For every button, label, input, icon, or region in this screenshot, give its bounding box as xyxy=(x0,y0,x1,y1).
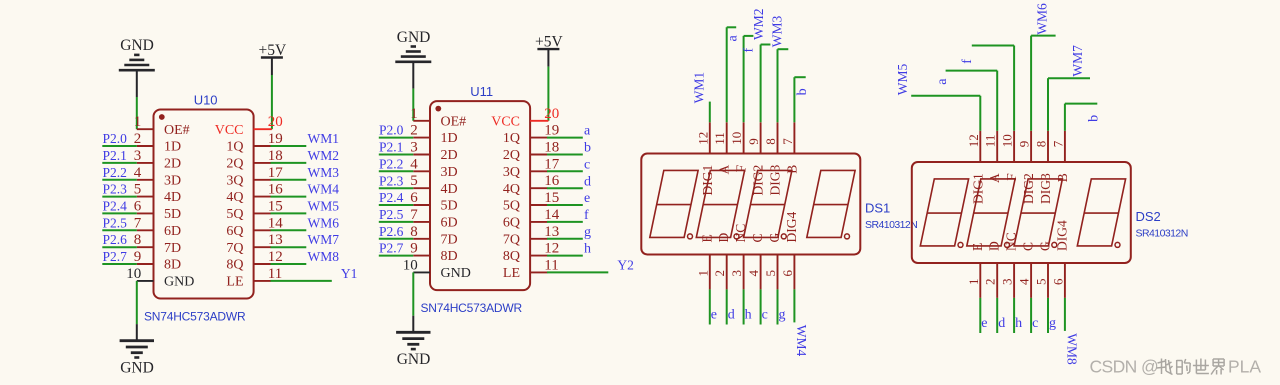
svg-text:6: 6 xyxy=(410,190,418,206)
svg-text:3: 3 xyxy=(134,148,142,164)
svg-text:2: 2 xyxy=(712,270,727,277)
svg-text:G: G xyxy=(767,233,782,243)
net label WM3 xyxy=(769,15,784,47)
svg-text:5: 5 xyxy=(410,173,418,189)
svg-text:G: G xyxy=(1038,241,1053,251)
svg-text:SN74HC573ADWR: SN74HC573ADWR xyxy=(144,310,246,324)
svg-text:WM6: WM6 xyxy=(308,215,340,230)
svg-text:f: f xyxy=(960,59,975,64)
net label e xyxy=(584,191,590,206)
svg-text:1: 1 xyxy=(134,114,142,130)
DS1 digit 4 decimal point xyxy=(845,234,850,239)
U11 pin 1 (OE#) xyxy=(410,106,466,130)
DS2 digit 1 decimal point xyxy=(958,242,963,247)
DS2 pin 4 (C) xyxy=(1017,242,1036,298)
wire h from DS1 bottom pin 3 xyxy=(743,289,745,324)
svg-text:20: 20 xyxy=(268,114,283,130)
wire b from DS2 top pin xyxy=(1065,104,1097,131)
U10 pin 12 (8Q) xyxy=(226,249,282,273)
net label WM7 xyxy=(1070,45,1085,77)
svg-text:6D: 6D xyxy=(441,216,458,231)
U11 pin 2 (1D) xyxy=(410,123,457,147)
svg-text:1Q: 1Q xyxy=(226,140,243,155)
part name SR410312N (DS2) xyxy=(1136,227,1188,239)
wire U10 pin 10 to ground xyxy=(136,281,138,324)
svg-text:15: 15 xyxy=(544,190,559,206)
wire WM8 from U10 pin 12 xyxy=(271,263,307,265)
DS1 pin 6 (DIG4) xyxy=(780,212,799,290)
svg-text:Y2: Y2 xyxy=(617,258,634,273)
svg-text:c: c xyxy=(1032,316,1038,331)
wire WM1 from U10 pin 19 xyxy=(271,145,307,147)
svg-text:6: 6 xyxy=(134,198,142,214)
display DS2 box xyxy=(912,162,1131,263)
svg-text:2Q: 2Q xyxy=(503,148,520,163)
svg-text:CSDN @: CSDN @ xyxy=(1090,357,1159,377)
svg-text:P2.4: P2.4 xyxy=(379,190,404,205)
net label WM2 xyxy=(751,9,766,41)
DS1 pin 4 (C) xyxy=(746,233,765,289)
svg-text:e: e xyxy=(584,191,590,206)
DS2 pin 3 (NC) xyxy=(1000,232,1019,298)
ground (top of U11) xyxy=(395,29,431,89)
svg-text:GND: GND xyxy=(441,266,471,281)
net label h xyxy=(1015,316,1022,331)
DS2 pin 8 (DIG3) xyxy=(1034,131,1054,204)
wire GND to U10 pin 1 xyxy=(136,97,138,129)
svg-text:4: 4 xyxy=(410,156,418,172)
wire c from DS2 bottom pin 4 xyxy=(1030,298,1032,333)
svg-text:4Q: 4Q xyxy=(503,182,520,197)
U10 pin 2 (1D) xyxy=(134,131,181,155)
svg-text:13: 13 xyxy=(268,232,283,248)
svg-text:P2.7: P2.7 xyxy=(103,249,128,264)
U11 pin 11 (LE) xyxy=(503,257,559,281)
net label P2.6 xyxy=(379,224,404,239)
svg-text:3Q: 3Q xyxy=(503,165,520,180)
net label P2.3 xyxy=(379,173,404,188)
display DS1 box xyxy=(641,154,860,255)
svg-text:DIG4: DIG4 xyxy=(784,212,799,243)
svg-text:2: 2 xyxy=(134,131,142,147)
wire P2.1 to U11 pin 3 xyxy=(379,154,414,156)
svg-text:16: 16 xyxy=(268,182,284,198)
svg-text:SR410312N: SR410312N xyxy=(1136,227,1188,239)
DS2 pin 5 (G) xyxy=(1034,241,1053,298)
svg-text:d: d xyxy=(728,307,735,322)
net label d xyxy=(584,174,591,189)
svg-text:1: 1 xyxy=(966,279,981,286)
net label WM8 xyxy=(1065,333,1080,365)
wire P2.0 to U10 pin 2 xyxy=(102,145,137,147)
svg-text:8: 8 xyxy=(1034,141,1049,148)
wire a from DS2 top pin xyxy=(946,71,998,131)
svg-text:DS1: DS1 xyxy=(865,200,890,215)
net label WM3 xyxy=(308,165,340,180)
DS1 pin 5 (G) xyxy=(763,233,782,290)
svg-text:U11: U11 xyxy=(470,84,493,99)
U11 pin 18 (2Q) xyxy=(503,140,559,164)
net label Y2 xyxy=(617,258,634,273)
net label WM5 xyxy=(895,64,910,96)
wire c from U11 pin 17 xyxy=(547,170,583,172)
net label P2.7 xyxy=(379,241,404,256)
wire P2.1 to U10 pin 3 xyxy=(102,162,137,164)
svg-text:8D: 8D xyxy=(164,258,181,273)
svg-text:WM2: WM2 xyxy=(308,148,340,163)
U11 pin 5 (4D) xyxy=(410,173,457,197)
DS1 digit 1 xyxy=(650,170,698,237)
U10 pin 7 (6D) xyxy=(134,215,181,239)
DS2 digit 1 xyxy=(920,179,968,246)
DS1 pin 3 (NC) xyxy=(729,224,748,290)
svg-text:P2.4: P2.4 xyxy=(103,199,128,214)
wire P2.3 to U11 pin 5 xyxy=(379,187,414,189)
wire d from U11 pin 16 xyxy=(547,187,583,189)
IC U11 box xyxy=(430,101,530,290)
svg-text:GND: GND xyxy=(120,359,154,376)
net label g xyxy=(584,225,591,240)
DS1 pin 8 (DIG3) xyxy=(763,122,783,195)
svg-text:19: 19 xyxy=(268,131,283,147)
svg-text:WM7: WM7 xyxy=(308,232,340,247)
wire WM6 from DS2 top pin xyxy=(1031,36,1056,131)
svg-text:7: 7 xyxy=(1050,140,1065,147)
svg-text:B: B xyxy=(1055,173,1070,182)
U10 pin 6 (5D) xyxy=(134,198,181,222)
wire a from U11 pin 19 xyxy=(547,137,583,139)
svg-text:12: 12 xyxy=(268,249,283,265)
svg-text:e: e xyxy=(711,307,717,322)
net label g xyxy=(1049,316,1056,331)
wire g from DS1 bottom pin 5 xyxy=(777,289,779,324)
wire b from DS1 top pin xyxy=(794,77,805,122)
svg-text:WM2: WM2 xyxy=(751,9,766,41)
svg-text:f: f xyxy=(741,48,756,53)
svg-text:A: A xyxy=(987,173,1002,183)
svg-text:E: E xyxy=(699,234,714,242)
wire WM2 from U10 pin 18 xyxy=(271,162,307,164)
IC U10 box xyxy=(154,110,254,299)
net label WM6 xyxy=(1035,3,1050,35)
svg-text:6D: 6D xyxy=(164,224,181,239)
net label WM4 xyxy=(794,325,809,357)
net label e xyxy=(981,316,987,331)
svg-text:DIG3: DIG3 xyxy=(768,164,783,195)
svg-text:DIG1: DIG1 xyxy=(970,173,985,204)
svg-text:1D: 1D xyxy=(164,140,181,155)
DS1 digit 2 xyxy=(696,170,744,237)
svg-text:4: 4 xyxy=(1017,278,1032,285)
wire P2.2 to U11 pin 4 xyxy=(379,170,414,172)
svg-text:10: 10 xyxy=(403,257,418,273)
U10 pin 3 (2D) xyxy=(134,148,181,172)
svg-text:P2.2: P2.2 xyxy=(103,165,127,180)
svg-text:P2.3: P2.3 xyxy=(103,182,128,197)
net label WM7 xyxy=(308,232,340,247)
net label Y1 xyxy=(341,266,358,281)
U10 pin 15 (5Q) xyxy=(226,198,282,222)
net label c xyxy=(584,157,590,172)
DS2 digit 2 decimal point xyxy=(1005,242,1010,247)
net label f xyxy=(960,59,975,64)
svg-text:A: A xyxy=(717,164,732,174)
wire e from DS2 bottom pin 1 xyxy=(979,298,981,333)
U10 pin 10 (GND) xyxy=(126,266,194,290)
DS2 pin 10 (F) xyxy=(1000,131,1020,181)
svg-text:WM5: WM5 xyxy=(895,64,910,96)
U11 pin 13 (7Q) xyxy=(503,224,559,248)
net label P2.6 xyxy=(103,232,128,247)
U10 pin 17 (3Q) xyxy=(226,165,283,189)
wire g from DS2 bottom pin 5 xyxy=(1047,298,1049,333)
net label b xyxy=(795,88,810,95)
net label P2.1 xyxy=(103,148,127,163)
svg-text:P2.0: P2.0 xyxy=(103,131,128,146)
wire d from DS2 bottom pin 2 xyxy=(996,298,998,333)
svg-text:DIG1: DIG1 xyxy=(700,165,715,196)
wire P2.4 to U11 pin 6 xyxy=(379,204,414,206)
svg-text:VCC: VCC xyxy=(491,114,520,129)
net label P2.0 xyxy=(103,131,128,146)
svg-text:6: 6 xyxy=(780,270,795,277)
U11 pin 4 (3D) xyxy=(410,156,457,180)
DS2 pin 6 (DIG4) xyxy=(1050,220,1069,298)
designator U11 xyxy=(470,84,493,99)
svg-text:F: F xyxy=(1004,173,1019,181)
power +5V (U11) xyxy=(535,34,563,67)
U11 pin 6 (5D) xyxy=(410,190,457,214)
svg-text:WM1: WM1 xyxy=(308,131,340,146)
net label WM2 xyxy=(308,148,340,163)
svg-text:U10: U10 xyxy=(194,92,218,107)
DS2 pin 12 (DIG1) xyxy=(966,131,986,204)
svg-text:d: d xyxy=(584,174,591,189)
svg-text:7: 7 xyxy=(410,207,418,223)
svg-text:C: C xyxy=(750,233,765,242)
svg-text:12: 12 xyxy=(695,132,710,145)
svg-text:5: 5 xyxy=(763,270,778,277)
wire WM2 from DS1 top pin xyxy=(761,45,771,123)
net label P2.5 xyxy=(379,207,404,222)
svg-text:SR410312N: SR410312N xyxy=(865,219,917,231)
net label P2.5 xyxy=(103,215,128,230)
svg-text:DIG3: DIG3 xyxy=(1038,173,1053,204)
DS2 digit 2 xyxy=(967,179,1015,246)
svg-text:GND: GND xyxy=(397,351,431,368)
svg-text:D: D xyxy=(987,241,1002,251)
designator DS2 xyxy=(1136,209,1161,224)
svg-text:h: h xyxy=(745,307,752,322)
DS2 digit 4 xyxy=(1077,179,1125,246)
svg-text:2D: 2D xyxy=(164,157,181,172)
watermark CSDN xyxy=(1090,357,1262,377)
net label c xyxy=(762,307,768,322)
svg-text:5Q: 5Q xyxy=(503,199,520,214)
wire P2.7 to U11 pin 9 xyxy=(379,255,414,257)
net label WM4 xyxy=(308,182,340,197)
part name SN74HC573ADWR xyxy=(421,301,523,315)
wire GND to U11 pin 1 xyxy=(412,89,414,121)
part name SR410312N (DS1) xyxy=(865,219,917,231)
U11 pin 12 (8Q) xyxy=(503,241,559,265)
U10 pin 20 (VCC) xyxy=(215,114,283,138)
ground (top of U10) xyxy=(119,37,155,97)
DS2 pin 7 (B) xyxy=(1050,131,1070,182)
svg-text:19: 19 xyxy=(544,123,559,139)
wire WM4 from DS1 bottom pin 6 xyxy=(793,289,795,322)
svg-text:11: 11 xyxy=(268,266,282,282)
wire P2.0 to U11 pin 2 xyxy=(379,137,414,139)
svg-text:WM6: WM6 xyxy=(1035,3,1050,35)
designator U10 xyxy=(194,92,218,107)
svg-text:8Q: 8Q xyxy=(226,258,243,273)
svg-text:5D: 5D xyxy=(441,199,458,214)
wire P2.2 to U10 pin 4 xyxy=(102,179,137,181)
wire WM6 from U10 pin 14 xyxy=(271,229,307,231)
wire e from U11 pin 15 xyxy=(547,204,583,206)
wire WM7 from DS2 top pin xyxy=(1048,78,1090,131)
power +5V (U10) xyxy=(259,42,287,75)
svg-text:P2.6: P2.6 xyxy=(103,232,128,247)
svg-text:8Q: 8Q xyxy=(503,249,520,264)
svg-text:15: 15 xyxy=(268,198,283,214)
designator DS1 xyxy=(865,200,890,215)
wire f from U11 pin 14 xyxy=(547,221,583,223)
DS2 pin 1 (E) xyxy=(966,243,985,298)
DS1 digit 3 decimal point xyxy=(781,234,786,239)
svg-text:8: 8 xyxy=(410,224,418,240)
wire P2.7 to U10 pin 9 xyxy=(102,263,137,265)
wire +5V to U10 pin 20 xyxy=(271,75,273,129)
wire a from DS1 top pin xyxy=(727,27,737,122)
svg-text:GND: GND xyxy=(120,37,154,54)
wire Y1 from U10 pin 11 xyxy=(271,280,332,282)
U10 pin 14 (6Q) xyxy=(226,215,283,239)
svg-text:E: E xyxy=(970,243,985,251)
U10 pin 19 (1Q) xyxy=(226,131,282,155)
DS1 pin 9 (DIG2) xyxy=(746,122,766,195)
net label P2.7 xyxy=(103,249,128,264)
svg-text:6Q: 6Q xyxy=(226,224,243,239)
svg-text:11: 11 xyxy=(544,257,558,273)
svg-text:10: 10 xyxy=(126,266,141,282)
svg-text:OE#: OE# xyxy=(164,123,190,138)
U11 pin 9 (8D) xyxy=(410,241,457,265)
wire c from DS1 bottom pin 4 xyxy=(760,289,762,324)
svg-text:P2.1: P2.1 xyxy=(379,140,403,155)
ground (bottom of U11) xyxy=(396,316,430,368)
svg-text:c: c xyxy=(584,157,590,172)
svg-text:3: 3 xyxy=(729,270,744,277)
U11 pin 14 (6Q) xyxy=(503,207,560,231)
svg-text:GND: GND xyxy=(164,275,194,290)
net label WM1 xyxy=(308,131,340,146)
svg-text:1: 1 xyxy=(695,270,710,277)
svg-text:18: 18 xyxy=(268,148,283,164)
svg-text:6: 6 xyxy=(1050,278,1065,285)
svg-text:20: 20 xyxy=(544,106,559,122)
svg-text:h: h xyxy=(1015,316,1022,331)
net label h xyxy=(745,307,752,322)
svg-text:4Q: 4Q xyxy=(226,190,243,205)
svg-text:LE: LE xyxy=(503,266,520,281)
svg-text:2D: 2D xyxy=(441,148,458,163)
svg-text:WM8: WM8 xyxy=(1065,333,1080,365)
net label P2.3 xyxy=(103,182,128,197)
wire g from U11 pin 13 xyxy=(547,238,583,240)
svg-text:Y1: Y1 xyxy=(341,266,358,281)
DS2 digit 3 decimal point xyxy=(1052,242,1057,247)
wire Y2 from U11 pin 11 xyxy=(547,271,608,273)
svg-text:2: 2 xyxy=(983,279,998,286)
U10 pin 13 (7Q) xyxy=(226,232,282,256)
svg-text:a: a xyxy=(725,35,740,42)
svg-text:5Q: 5Q xyxy=(226,207,243,222)
svg-text:P2.5: P2.5 xyxy=(103,215,128,230)
DS1 digit 3 xyxy=(744,170,792,237)
wire WM3 from U10 pin 17 xyxy=(271,179,307,181)
wire WM1 from DS1 top pin xyxy=(709,102,711,123)
U11 pin 19 (1Q) xyxy=(503,123,559,147)
wire P2.6 to U10 pin 8 xyxy=(102,246,137,248)
wire +5V to U11 pin 20 xyxy=(547,67,549,121)
svg-text:5: 5 xyxy=(1034,279,1049,286)
svg-text:WM3: WM3 xyxy=(308,165,340,180)
net label f xyxy=(584,208,589,223)
svg-text:1: 1 xyxy=(410,106,418,122)
U11 pin 15 (5Q) xyxy=(503,190,559,214)
svg-text:b: b xyxy=(795,88,810,95)
svg-text:b: b xyxy=(1087,115,1102,122)
net label b xyxy=(1087,115,1102,122)
DS2 pin 9 (DIG2) xyxy=(1017,131,1037,204)
svg-text:P2.3: P2.3 xyxy=(379,173,404,188)
net label P2.2 xyxy=(103,165,127,180)
svg-text:P2.7: P2.7 xyxy=(379,241,404,256)
svg-text:g: g xyxy=(584,225,591,240)
svg-text:5D: 5D xyxy=(164,207,181,222)
U10 pin 4 (3D) xyxy=(134,165,181,189)
wire b from U11 pin 18 xyxy=(547,154,583,156)
svg-text:WM5: WM5 xyxy=(308,199,340,214)
net label e xyxy=(711,307,717,322)
svg-text:9: 9 xyxy=(134,249,142,265)
U10 pin 5 (4D) xyxy=(134,182,181,206)
net label WM1 xyxy=(692,72,707,104)
wire h from DS2 bottom pin 3 xyxy=(1013,298,1015,333)
DS1 pin 10 (F) xyxy=(729,122,749,172)
U11 pin 8 (7D) xyxy=(410,224,457,248)
wire P2.5 to U11 pin 7 xyxy=(379,221,414,223)
svg-text:WM1: WM1 xyxy=(692,72,707,104)
wire P2.3 to U10 pin 5 xyxy=(102,196,137,198)
DS1 pin 1 (E) xyxy=(695,234,714,289)
net label P2.4 xyxy=(379,190,404,205)
net label h xyxy=(584,242,591,257)
svg-text:a: a xyxy=(584,124,591,139)
svg-text:2: 2 xyxy=(410,123,418,139)
svg-text:g: g xyxy=(779,307,786,322)
DS1 pin 12 (DIG1) xyxy=(695,122,715,195)
U11 pin 7 (6D) xyxy=(410,207,457,231)
U11 pin 10 (GND) xyxy=(403,257,471,281)
U10 pin 8 (7D) xyxy=(134,232,181,256)
U10 pin 9 (8D) xyxy=(134,249,181,273)
svg-text:LE: LE xyxy=(226,275,243,290)
svg-text:1Q: 1Q xyxy=(503,131,520,146)
net label a xyxy=(725,35,740,42)
